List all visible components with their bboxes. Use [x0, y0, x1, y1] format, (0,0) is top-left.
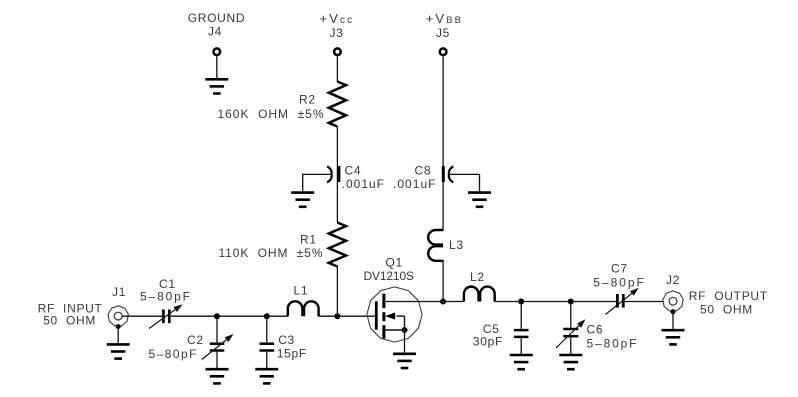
svg-text:J5: J5 [436, 26, 450, 40]
svg-text:R2: R2 [299, 93, 316, 107]
capacitor C8 .001uF [393, 164, 453, 192]
svg-text:L3: L3 [449, 238, 464, 252]
capacitor C4 .001uF [327, 164, 384, 192]
capacitor C7 variable 5-80pF [593, 262, 644, 315]
svg-text:J3: J3 [329, 26, 343, 40]
wire L3 to drain node [442, 260, 444, 302]
svg-text:5–80pF: 5–80pF [593, 275, 644, 289]
svg-text:160K OHM ±5%: 160K OHM ±5% [218, 107, 324, 121]
connector J1 RF INPUT [38, 285, 129, 329]
wire J3 to R2 [336, 55, 338, 82]
node C2 tap [214, 313, 220, 319]
svg-text:.001uF: .001uF [342, 177, 384, 191]
wire J4 to ground [216, 55, 218, 79]
node R1 / gate junction [334, 313, 340, 319]
wire C4 to ground [303, 174, 331, 192]
svg-text:5–80pF: 5–80pF [587, 337, 637, 351]
inductor L2 [464, 270, 495, 302]
capacitor C6 variable 5-80pF [556, 302, 637, 356]
capacitor C1 variable 5-80pF [140, 277, 190, 329]
svg-text:R1: R1 [300, 233, 317, 247]
ground (C2) [206, 369, 229, 383]
ground (C5) [510, 355, 533, 369]
wire C7 to J2 [625, 301, 663, 303]
connector J2 RF OUTPUT [663, 273, 768, 316]
wire Q1 drain to node [385, 301, 443, 303]
wire Q1 source to ground [404, 330, 406, 354]
svg-text:L1: L1 [294, 284, 309, 298]
wire C8 to ground [450, 174, 480, 192]
node C5 tap [518, 299, 524, 305]
ground (Q1 source) [393, 354, 416, 368]
resistor R1 110K OHM [219, 223, 347, 267]
svg-text:+Vcc: +Vcc [320, 11, 355, 26]
inductor L1 [288, 284, 319, 317]
wire J2 to ground [672, 312, 674, 331]
wire J1 to ground [117, 327, 119, 345]
svg-text:C2: C2 [187, 333, 204, 347]
svg-text:30pF: 30pF [473, 334, 503, 348]
wire R2 to R1 [336, 127, 338, 223]
connector J5 (+VBB) [426, 11, 463, 55]
node drain junction [440, 299, 446, 305]
node C3 tap [264, 313, 270, 319]
svg-text:J4: J4 [208, 25, 222, 39]
svg-text:C7: C7 [611, 262, 628, 276]
resistor R2 160K OHM [218, 82, 347, 127]
svg-text:J2: J2 [666, 273, 680, 287]
svg-text:15pF: 15pF [277, 346, 307, 360]
svg-text:5–80pF: 5–80pF [140, 290, 190, 304]
wire L2 to C7 [495, 301, 617, 303]
svg-text:GROUND: GROUND [188, 11, 246, 25]
connector J3 (+Vcc) [320, 11, 355, 55]
capacitor C5 30pF [473, 302, 529, 356]
svg-text:C4: C4 [345, 164, 362, 178]
wire L1 to Q1 gate [319, 315, 375, 317]
ground (C8) [468, 193, 491, 207]
svg-text:L2: L2 [470, 270, 485, 284]
svg-text:.001uF: .001uF [393, 177, 436, 191]
svg-text:J1: J1 [112, 285, 126, 299]
svg-text:DV1210S: DV1210S [364, 269, 415, 283]
ground (C4) [291, 193, 314, 207]
svg-text:C6: C6 [587, 323, 604, 337]
inductor L3 [428, 230, 464, 261]
wire R1 to gate node [336, 267, 338, 317]
svg-text:+VBB: +VBB [426, 11, 463, 26]
svg-text:50 OHM: 50 OHM [43, 314, 96, 328]
svg-text:RF OUTPUT: RF OUTPUT [689, 289, 768, 303]
ground (J1) [107, 344, 130, 358]
node C6 tap [568, 299, 574, 305]
svg-text:C3: C3 [278, 333, 295, 347]
svg-text:Q1: Q1 [386, 256, 403, 270]
svg-text:C8: C8 [415, 164, 432, 178]
svg-text:110K OHM ±5%: 110K OHM ±5% [219, 246, 323, 260]
wire drain node to L2 [443, 301, 464, 303]
svg-text:50 OHM: 50 OHM [700, 302, 753, 316]
capacitor C2 variable 5-80pF [149, 316, 234, 369]
ground (J4) [205, 79, 228, 93]
transistor Q1 DV1210S [364, 256, 423, 343]
ground (C6) [559, 355, 582, 369]
ground (C3) [255, 369, 278, 383]
wire C1 to L1 [171, 315, 288, 317]
capacitor C3 15pF [260, 316, 307, 369]
wire J1 to C1 [122, 315, 162, 317]
ground (J2) [662, 330, 685, 344]
wire J5 to L3 [442, 55, 444, 231]
svg-text:5–80pF: 5–80pF [149, 347, 197, 361]
connector J4 (GROUND) [188, 11, 246, 55]
